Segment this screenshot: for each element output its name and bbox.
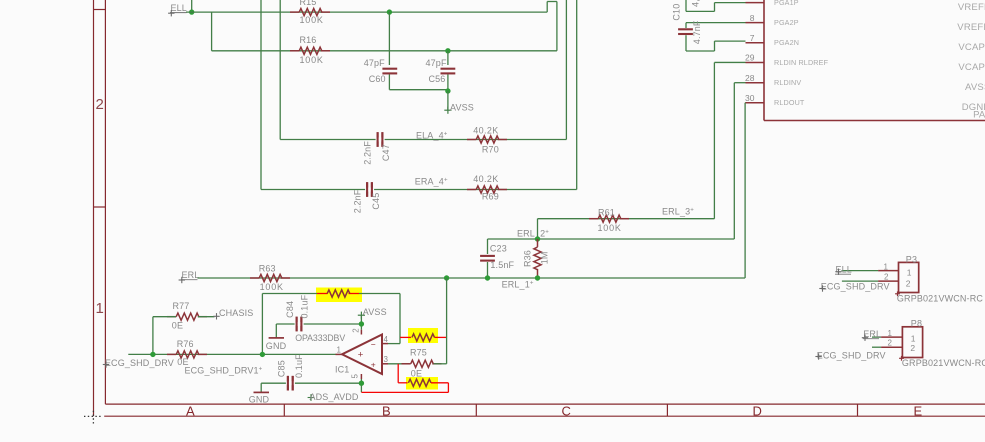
- svg-text:ECG_SHD_DRV: ECG_SHD_DRV: [105, 358, 174, 368]
- P3 pin 1 wire ELL: [842, 270, 879, 272]
- wire R76 row: [128, 353, 335, 355]
- svg-text:C56: C56: [429, 74, 446, 84]
- highlighted wire pin3 down: [397, 364, 399, 383]
- highlighted resistor row383: [408, 379, 431, 386]
- op-amp pin1 stub: [336, 353, 343, 355]
- IC pin stub RLDIN RLDREF: [746, 61, 765, 63]
- svg-text:E: E: [914, 404, 923, 419]
- wire C60 top stub: [388, 12, 390, 65]
- op-amp IC1 pin2 stub: [360, 330, 362, 335]
- wire C84 row: [276, 323, 361, 325]
- wire row294 right green: [359, 293, 400, 295]
- wire AVSS to pin2: [360, 315, 362, 330]
- P3 value anchor mark: [895, 293, 900, 295]
- svg-text:ELL: ELL: [171, 3, 187, 13]
- svg-text:CHASIS: CHASIS: [219, 308, 253, 318]
- svg-text:ERL_3+: ERL_3+: [662, 207, 694, 217]
- svg-text:R75: R75: [410, 348, 427, 358]
- wire C23 top stub: [487, 239, 489, 254]
- wire vertical net to ERA_4 from top: [260, 0, 262, 190]
- resistor R16: [299, 47, 322, 54]
- svg-text:2: 2: [888, 339, 893, 348]
- svg-text:ERA_4+: ERA_4+: [415, 177, 448, 187]
- wire ERA_4 row: [261, 189, 577, 191]
- wire R61 row ERL_3: [538, 218, 715, 220]
- junction ERL_2: [535, 236, 540, 241]
- svg-text:R16: R16: [300, 35, 317, 45]
- svg-text:PAD: PAD: [973, 109, 985, 120]
- junction C84/AVSS: [359, 321, 364, 326]
- highlighted wire segs row337: [400, 336, 411, 338]
- capacitor C47: [377, 132, 379, 147]
- svg-text:C60: C60: [369, 74, 386, 84]
- P8 pin 1 stub: [881, 336, 902, 338]
- wire ERL_2 row: [488, 238, 735, 240]
- junction ERL row at R36: [535, 275, 540, 280]
- svg-text:VREFN: VREFN: [957, 22, 985, 33]
- highlighted resistor row294: [327, 290, 350, 297]
- wire C60 bottom: [388, 75, 390, 90]
- svg-text:GRPB021VWCN-RC: GRPB021VWCN-RC: [897, 293, 983, 303]
- connector P3 body: [899, 262, 919, 292]
- wire from cap above to pin 4 row: [685, 0, 687, 11]
- P8 pin 2 wire: [872, 346, 881, 348]
- svg-text:1M: 1M: [540, 251, 550, 264]
- svg-text:30: 30: [745, 93, 755, 103]
- svg-text:PGA1P: PGA1P: [774, 0, 799, 7]
- wire row1 ELL to R15 to node A: [186, 11, 547, 13]
- wire v446 ERL to R75: [446, 278, 448, 364]
- svg-text:R36: R36: [522, 250, 532, 267]
- svg-text:R61: R61: [598, 207, 615, 217]
- svg-text:2: 2: [351, 328, 360, 333]
- svg-text:0E: 0E: [172, 320, 183, 330]
- wire C10 bottom to pin 7: [685, 35, 687, 51]
- svg-text:AVSS: AVSS: [363, 307, 387, 317]
- svg-text:RLDOUT: RLDOUT: [774, 98, 805, 107]
- svg-text:GND: GND: [266, 341, 287, 351]
- frame bottom border: [105, 403, 985, 405]
- svg-text:2.2nF: 2.2nF: [352, 189, 362, 213]
- resistor R70: [476, 136, 499, 143]
- svg-text:0E: 0E: [411, 369, 422, 379]
- svg-text:R77: R77: [173, 301, 190, 311]
- resistor R15: [299, 9, 322, 16]
- wire ERL row: [198, 277, 746, 279]
- junction row1 at C60: [387, 9, 392, 14]
- svg-text:R70: R70: [482, 144, 499, 154]
- wire ERL_3 vertical to IC pin 29: [713, 62, 715, 218]
- svg-text:C45: C45: [371, 193, 381, 210]
- svg-text:40.2K: 40.2K: [473, 174, 499, 184]
- svg-text:C84: C84: [285, 301, 295, 318]
- svg-text:0.1uF: 0.1uF: [294, 354, 304, 378]
- svg-text:1: 1: [911, 334, 916, 344]
- svg-text:−: −: [371, 339, 376, 349]
- wire C85 row: [261, 382, 361, 384]
- wire ECG_SHD_DRV1 row294 left vertical: [261, 294, 263, 355]
- highlight rect 3: [406, 377, 438, 390]
- wire C23 bottom stub: [487, 262, 489, 278]
- svg-text:100K: 100K: [260, 282, 284, 292]
- svg-text:OPA333DBV: OPA333DBV: [295, 333, 345, 343]
- svg-text:RLDINV: RLDINV: [774, 78, 801, 87]
- svg-text:GND: GND: [249, 395, 270, 405]
- wire R75 right to v446: [434, 363, 447, 365]
- wire ERL_2 vertical to IC pin 28: [733, 83, 735, 239]
- P8 pin 2 stub: [881, 346, 902, 348]
- wire C84 GND stub: [275, 324, 277, 338]
- svg-text:GRPB021VWCN-RC: GRPB021VWCN-RC: [902, 358, 985, 368]
- svg-text:47pF: 47pF: [364, 58, 385, 68]
- svg-text:VCAP2: VCAP2: [958, 62, 985, 73]
- svg-text:4,: 4,: [690, 0, 700, 7]
- svg-text:ECG_SHD_DRV: ECG_SHD_DRV: [821, 281, 890, 291]
- svg-text:1: 1: [907, 268, 912, 278]
- wire row2 R16: [212, 50, 557, 52]
- connector P8 body: [902, 327, 922, 358]
- svg-text:2: 2: [884, 273, 889, 282]
- wire row294 horizontal: [262, 293, 317, 295]
- svg-text:4.7nF: 4.7nF: [692, 20, 702, 44]
- junction ERL row at R75 column: [444, 275, 449, 280]
- svg-text:ECG_SHD_DRV: ECG_SHD_DRV: [817, 350, 886, 360]
- resistor R75: [411, 360, 434, 367]
- junction row2 at C56: [445, 48, 450, 53]
- svg-text:8: 8: [750, 13, 755, 23]
- svg-text:1.5nF: 1.5nF: [490, 260, 514, 270]
- svg-text:AVSS: AVSS: [450, 103, 474, 113]
- IC pin stub PGA1P: [746, 2, 765, 4]
- IC pin stub RLDOUT: [746, 102, 765, 104]
- junction C85/pin5: [359, 381, 364, 386]
- svg-text:R76: R76: [177, 339, 194, 349]
- wire S-bend joining row1 and row2: [546, 2, 548, 13]
- capacitor C10: [678, 28, 693, 30]
- svg-text:1: 1: [888, 329, 893, 338]
- svg-text:R69: R69: [482, 192, 499, 202]
- junction R76 row at R77: [150, 352, 155, 357]
- svg-text:IC1: IC1: [335, 364, 349, 374]
- svg-text:+: +: [371, 359, 376, 369]
- supply ADS_AVDD: [308, 397, 315, 399]
- capacitor C85: [287, 376, 289, 391]
- op-amp pin4 stub: [382, 343, 388, 345]
- P3 pin 1 stub: [878, 270, 898, 272]
- svg-text:+: +: [358, 349, 364, 360]
- resistor R76: [176, 351, 199, 358]
- wire ELA_4 row: [280, 139, 566, 141]
- P3 pin 2 stub: [878, 280, 898, 282]
- wire C10 top stub: [685, 23, 687, 28]
- P8 value anchor mark: [899, 357, 904, 359]
- svg-text:ERL_2+: ERL_2+: [517, 228, 549, 238]
- svg-text:ECG_SHD_DRV1+: ECG_SHD_DRV1+: [185, 365, 263, 375]
- capacitor C56: [441, 68, 456, 70]
- capacitor C23: [480, 255, 495, 257]
- svg-text:ADS_AVDD: ADS_AVDD: [310, 392, 359, 402]
- svg-text:VREFP: VREFP: [958, 2, 985, 13]
- highlight rect 1: [316, 288, 362, 303]
- wire R75 row green left: [388, 363, 410, 365]
- svg-text:100K: 100K: [598, 223, 622, 233]
- svg-text:2: 2: [96, 96, 104, 113]
- svg-text:C85: C85: [276, 360, 286, 377]
- svg-text:2.2nF: 2.2nF: [362, 141, 372, 165]
- svg-text:P8: P8: [911, 319, 922, 329]
- IC pin stub RLDINV: [746, 82, 765, 84]
- supply AVSS at op-amp: [358, 314, 365, 316]
- op-amp pin5 stub: [360, 374, 362, 379]
- svg-text:100K: 100K: [300, 15, 324, 25]
- IC U1 body outline: [763, 0, 765, 121]
- svg-text:3: 3: [384, 355, 389, 364]
- svg-text:2: 2: [910, 343, 915, 353]
- wire pin4 stub green: [388, 343, 400, 345]
- svg-text:AVSS: AVSS: [965, 82, 985, 93]
- op-amp pin3 stub: [382, 363, 388, 365]
- resistor R69: [476, 186, 499, 193]
- resistor R61: [598, 215, 621, 222]
- wire ELA_4 right vertical to top: [565, 0, 567, 140]
- supply AVSS top: [444, 109, 451, 111]
- svg-text:2: 2: [906, 278, 911, 288]
- highlighted wire right down: [447, 383, 449, 393]
- svg-text:RLDIN RLDREF: RLDIN RLDREF: [774, 58, 829, 67]
- svg-text:PGA2P: PGA2P: [774, 18, 799, 27]
- highlighted wire bottom to ADS_AVDD: [361, 391, 448, 393]
- wire ERA_4 right vertical to top: [576, 0, 578, 190]
- junction C56/C60 bottom: [445, 88, 450, 93]
- capacitor C45: [366, 182, 368, 197]
- svg-text:R63: R63: [259, 263, 276, 273]
- wire C85 GND stub: [260, 383, 262, 392]
- junction ERL row at C23: [485, 275, 490, 280]
- wire vertical net to ELA_4 from top: [279, 0, 281, 140]
- IC pin stub PGA2P: [746, 22, 765, 24]
- highlighted wire row383 left: [398, 382, 407, 384]
- P3 pin 2 wire: [842, 280, 878, 282]
- svg-text:ELA_4+: ELA_4+: [416, 130, 448, 140]
- schematic frame left border: [93, 0, 95, 416]
- wire C56 bottom: [447, 75, 449, 92]
- svg-text:28: 28: [745, 73, 755, 83]
- wire to AVSS supply: [447, 91, 449, 110]
- svg-text:100K: 100K: [300, 55, 324, 65]
- svg-text:A: A: [186, 404, 195, 419]
- highlighted resistor row337: [412, 334, 435, 341]
- wire ERL_1 vertical to IC pin 30: [744, 103, 746, 278]
- svg-text:ERL: ERL: [182, 270, 200, 280]
- highlight rect 2: [408, 328, 438, 343]
- ground GND at C85: [254, 391, 270, 393]
- capacitor C84: [296, 317, 298, 332]
- wire pin 8 to C10: [686, 22, 746, 24]
- capacitor C60: [382, 68, 397, 70]
- wire link row1-row2: [211, 12, 213, 51]
- P8 pin 1 wire ERL: [872, 336, 881, 338]
- svg-text:VCAP1: VCAP1: [958, 42, 985, 53]
- op-amp IC1 triangle: [342, 335, 382, 375]
- svg-text:B: B: [382, 404, 391, 419]
- ground GND at C84: [269, 337, 284, 339]
- svg-text:R15: R15: [300, 0, 317, 7]
- junction R76 row at row294 vertical: [260, 352, 265, 357]
- svg-text:D: D: [753, 404, 762, 419]
- svg-text:C: C: [562, 404, 571, 419]
- highlighted wire segs row294: [317, 293, 328, 295]
- highlighted wire row383 right: [431, 382, 448, 384]
- wire x400 vertical pin4 net: [399, 294, 401, 344]
- wire ELL vertical to top: [191, 0, 193, 12]
- IC pin stub PGA2N: [746, 42, 765, 44]
- junction ELL: [189, 9, 194, 14]
- svg-text:47pF: 47pF: [426, 58, 447, 68]
- drawing origin dotted cross: [84, 415, 103, 417]
- wire pin5 to C85 junction: [360, 379, 362, 392]
- svg-text:4: 4: [384, 335, 389, 344]
- svg-text:5: 5: [351, 374, 360, 379]
- resistor R36 vertical: [534, 247, 541, 270]
- svg-text:PGA2N: PGA2N: [774, 38, 799, 47]
- svg-text:C47: C47: [381, 144, 391, 161]
- resistor R63: [259, 274, 282, 281]
- svg-text:7: 7: [750, 33, 755, 43]
- svg-text:1: 1: [884, 262, 889, 271]
- svg-text:40.2K: 40.2K: [473, 126, 499, 136]
- wire R61 to ERL_2 junction: [537, 219, 539, 239]
- svg-text:P3: P3: [906, 254, 917, 264]
- svg-text:1: 1: [337, 345, 342, 354]
- svg-text:ERL_1+: ERL_1+: [502, 280, 534, 290]
- wire C56 top stub: [447, 51, 449, 65]
- svg-text:1: 1: [96, 300, 104, 317]
- svg-text:0.1uF: 0.1uF: [300, 294, 310, 318]
- resistor R77: [176, 313, 199, 320]
- svg-text:C10: C10: [672, 4, 682, 21]
- wire R77 to R76 vertical: [152, 317, 154, 355]
- svg-text:29: 29: [745, 53, 755, 63]
- svg-text:C23: C23: [490, 243, 507, 253]
